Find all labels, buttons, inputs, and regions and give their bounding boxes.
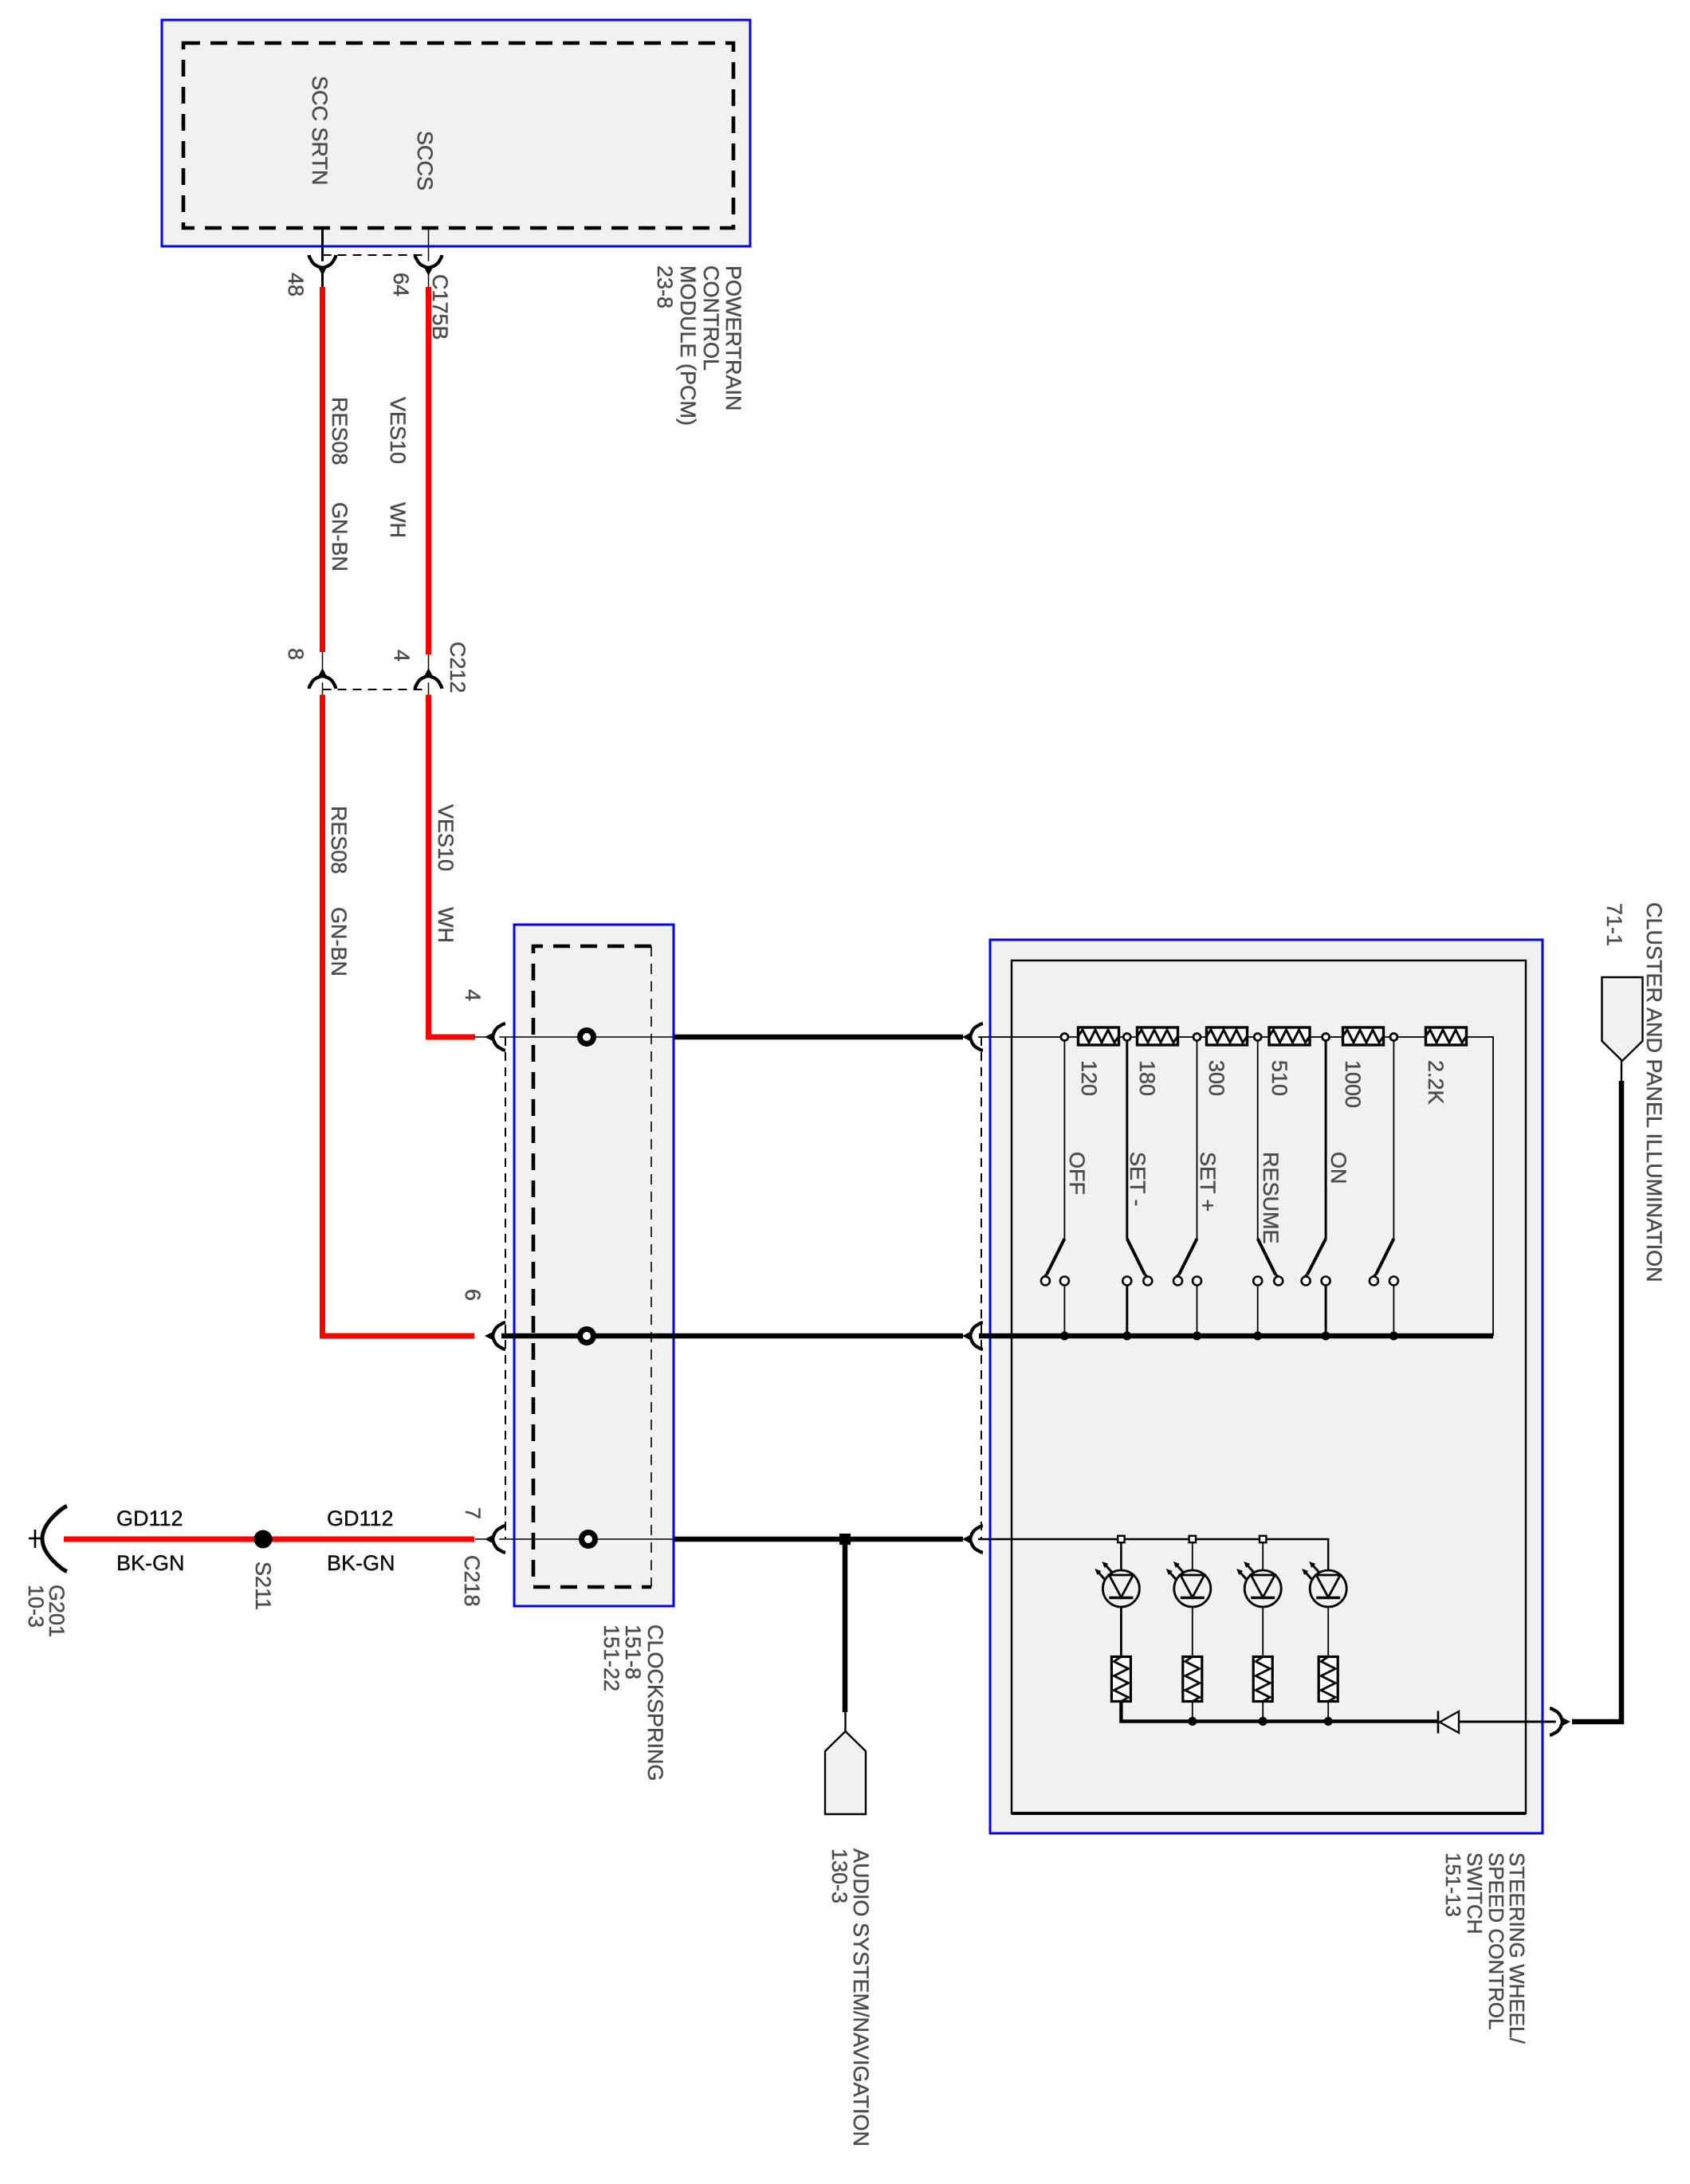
connector C175B pin 48 symbol [309,255,336,276]
svg-text:GN-BN: GN-BN [328,502,352,572]
audio branch wire (thick) [843,1539,848,1712]
svg-text:CONTROL: CONTROL [699,265,723,371]
LED 2 lower wire [1192,1607,1193,1657]
switch OFF leg [1063,1037,1065,1239]
svg-text:AUDIO SYSTEM/NAVIGATION: AUDIO SYSTEM/NAVIGATION [849,1848,873,2147]
cluster illumination connector 71-1 [1602,977,1643,1061]
svg-text:8: 8 [284,648,308,660]
svg-text:WH: WH [386,502,410,538]
switch box entry arrow pin6 wire [962,1322,983,1349]
switch SET- leg [1126,1037,1128,1239]
svg-text:C218: C218 [460,1555,484,1607]
ground wire GD112 right (red) [272,1537,474,1542]
switch RESUME leg [1257,1037,1259,1239]
connector C175B dashed link [323,254,429,256]
clockspring box [514,925,674,1606]
node circle 2 [1123,1034,1130,1041]
wire PCM pin 64 stub [428,228,430,288]
arrow to cluster illumination [1550,1708,1570,1735]
svg-text:POWERTRAIN: POWERTRAIN [721,265,745,411]
wire pin7 clockspring to switch (thick) [674,1537,963,1542]
audio system connector [825,1731,866,1814]
switch box entry arrow pin4 wire [962,1023,983,1051]
diode to cluster wire (thin) [1459,1721,1556,1723]
svg-text:GN-BN: GN-BN [327,907,351,976]
svg-text:300: 300 [1205,1060,1228,1096]
clockspring inner dashed rect (thick sides) [533,946,651,1587]
svg-text:SET +: SET + [1196,1152,1220,1212]
PCM inner dashed rect [183,43,733,228]
LED bus [1121,1702,1438,1722]
svg-text:4: 4 [461,989,485,1001]
wire clockspring pin 4 (thin) [475,1036,674,1038]
resistor 1000 [1343,1027,1384,1045]
LED top wire [978,1539,1328,1570]
svg-text:CLUSTER AND PANEL ILLUMINATION: CLUSTER AND PANEL ILLUMINATION [1642,902,1666,1283]
svg-text:SCCS: SCCS [413,131,437,191]
svg-text:180: 180 [1135,1060,1159,1096]
svg-text:RES08: RES08 [328,397,352,465]
connector C212 dashed link [323,689,429,690]
switch box entry arrow pin7 wire [962,1526,983,1553]
svg-text:WH: WH [434,907,458,943]
wire clockspring pin 6 (thick) [501,1334,674,1339]
svg-text:SCC SRTN: SCC SRTN [308,76,332,186]
node square 3 [1260,1536,1266,1542]
clockspring ring pin 4 [580,1031,594,1044]
resistor 180 [1138,1027,1178,1045]
clockspring ring pin 7 [582,1533,595,1546]
ground wire GD112 left (red) [64,1537,254,1542]
switch bus (thick) [979,1334,1493,1339]
node circle 6 [1390,1034,1397,1041]
diode [1437,1711,1440,1734]
cluster pentagon neck [1621,1060,1622,1082]
svg-text:GD112: GD112 [116,1506,183,1530]
switch 6 leg [1393,1037,1394,1239]
LED resistor 2 [1183,1657,1202,1702]
LED resistor 1 [1111,1657,1130,1702]
svg-text:23-8: 23-8 [653,265,677,308]
connector C218 pin 6 symbol [485,1322,505,1349]
PCM module box [162,20,750,246]
wire RES08 GN-BN upper (red) [320,287,325,652]
node circle 4 [1254,1034,1261,1041]
LED 2 [1166,1561,1211,1607]
node square 2 [1189,1536,1196,1542]
svg-text:48: 48 [284,273,308,297]
svg-text:VES10: VES10 [434,804,458,871]
connector C218 pin 7 symbol [485,1526,505,1553]
svg-text:RES08: RES08 [327,806,351,874]
svg-text:S211: S211 [251,1561,275,1610]
svg-text:BK-GN: BK-GN [327,1551,395,1575]
clockspring inner dashed right edge (thin) [650,946,652,1587]
resistor chain wire [978,1037,1493,1336]
wire pin4 clockspring to switch (thick) [674,1035,963,1040]
resistor 120 [1079,1027,1119,1045]
steering wheel switch box [990,940,1543,1833]
svg-text:1000: 1000 [1341,1060,1365,1108]
ground G201 symbol [42,1506,67,1572]
LED 1 [1095,1561,1139,1607]
svg-text:SPEED CONTROL: SPEED CONTROL [1484,1852,1508,2030]
svg-text:6: 6 [461,1289,485,1301]
wire stub above C212 pin 8 [322,651,324,695]
connector C218 dashed link [505,1037,506,1539]
LED resistor 3 [1253,1657,1272,1702]
svg-text:64: 64 [389,273,413,297]
svg-text:151-22: 151-22 [599,1624,623,1691]
svg-text:OFF: OFF [1065,1152,1089,1195]
node circle 3 [1193,1034,1201,1041]
svg-text:151-8: 151-8 [621,1624,645,1679]
clockspring ring pin 6 [580,1330,594,1343]
LED branch 2 [1192,1539,1193,1570]
wire stub above C212 pin 4 [428,654,430,695]
LED 4 lower wire [1327,1607,1329,1657]
audio branch junction [839,1534,851,1545]
svg-text:RESUME: RESUME [1259,1152,1283,1244]
cluster illumination wire (thick) [1572,1081,1621,1722]
node circle 1 [1061,1034,1068,1041]
switch box inner rect bottom edge (thick) [1012,1812,1526,1815]
svg-text:MODULE (PCM): MODULE (PCM) [676,265,700,426]
wire PCM pin 48 stub [321,228,324,288]
wire pin6 clockspring to switch (thick) [674,1334,963,1339]
connector C212 pin 4 symbol [415,668,442,689]
wire clockspring pin 7 (thin) [475,1538,674,1540]
svg-text:130-3: 130-3 [827,1848,851,1903]
switch SET+ leg [1197,1037,1198,1239]
svg-text:SET -: SET - [1126,1152,1150,1207]
LED 4 [1302,1561,1346,1607]
LED 3 [1236,1561,1281,1607]
resistor 2.2K [1426,1027,1467,1045]
svg-text:510: 510 [1267,1060,1291,1096]
LED resistor 4 [1319,1657,1338,1702]
svg-text:CLOCKSPRING: CLOCKSPRING [643,1624,667,1781]
switch ON leg [1325,1037,1327,1239]
svg-text:71-1: 71-1 [1602,903,1626,946]
connector C175B pin 64 symbol [415,255,442,276]
splice S211 [254,1530,273,1549]
svg-text:151-13: 151-13 [1441,1852,1465,1917]
svg-text:GD112: GD112 [327,1506,394,1530]
LED 1 lower wire [1120,1607,1122,1657]
switch box entry dashed link [981,1037,982,1539]
node circle 5 [1323,1034,1330,1041]
svg-text:ON: ON [1326,1152,1350,1184]
svg-text:10-3: 10-3 [24,1585,48,1628]
wire RES08 GN-BN lower (red) [323,695,475,1337]
connector C218 pin 4 symbol [485,1023,505,1051]
resistor 300 [1207,1027,1248,1045]
node square 1 [1118,1536,1124,1542]
svg-text:SWITCH: SWITCH [1463,1852,1487,1935]
wire VES10 WH lower (red) [429,695,476,1038]
switch box inner rect [1012,960,1526,1813]
LED bus junction dots [1188,1717,1197,1726]
svg-text:C212: C212 [446,642,470,693]
svg-text:4: 4 [390,650,414,662]
svg-text:VES10: VES10 [386,397,410,464]
audio pentagon neck [844,1711,846,1731]
LED branch 3 [1262,1539,1264,1570]
svg-text:120: 120 [1077,1060,1101,1096]
LED 3 lower wire [1262,1607,1264,1657]
svg-text:BK-GN: BK-GN [116,1551,185,1575]
wire VES10 WH upper (red) [426,287,431,654]
svg-text:7: 7 [461,1507,485,1519]
connector C212 pin 8 symbol [309,668,336,689]
resistor 510 [1269,1027,1310,1045]
LED branch 1 [1120,1539,1122,1570]
svg-text:C175B: C175B [428,274,452,340]
svg-text:2.2K: 2.2K [1424,1060,1448,1105]
